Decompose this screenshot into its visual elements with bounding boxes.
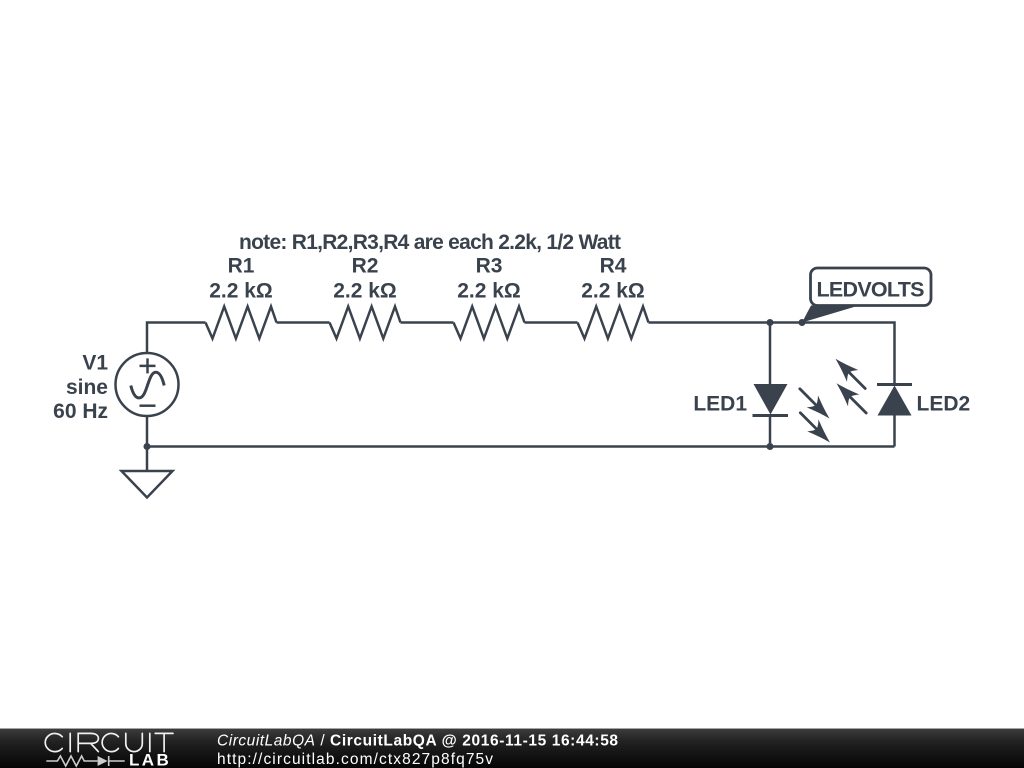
wire R2 to R3 [401,321,454,324]
LED2 lower branch wire [893,416,896,447]
ground stem wire [146,447,149,472]
junction node dot V1 bottom [144,443,151,450]
V1 sine wave [131,372,164,398]
svg-text:2.2 kΩ: 2.2 kΩ [581,280,645,303]
LEDVOLTS flag box [811,268,932,306]
footer text block [0,723,700,768]
svg-text:R3: R3 [476,255,503,278]
LED2 emission arrow 2 [831,378,872,419]
svg-text:2.2 kΩ: 2.2 kΩ [457,280,521,303]
junction node dot LEDVOLTS [799,319,806,326]
svg-text:2.2 kΩ: 2.2 kΩ [209,280,273,303]
resistor R2 [330,307,401,339]
svg-text:LED1: LED1 [693,392,747,415]
V1 plus sign [140,358,156,373]
footer bar [0,728,1024,768]
LED1 lower branch wire [769,416,772,447]
bottom wire [147,445,895,448]
logo wordmark CIRCUIT [45,733,173,751]
LED2 emission arrow 1 [830,353,871,394]
svg-text:sine: sine [66,376,108,399]
svg-text:LEDVOLTS: LEDVOLTS [817,278,925,302]
LEDVOLTS flag pointer [802,306,859,323]
LED1 emission arrow 1 [794,383,835,424]
svg-text:R4: R4 [600,255,627,278]
svg-text:2.2 kΩ: 2.2 kΩ [333,280,397,303]
svg-text:R2: R2 [352,255,379,278]
junction node dot top LED1 [767,319,774,326]
svg-text:LED2: LED2 [917,392,971,415]
svg-text:CircuitLabQA / CircuitLabQA @: CircuitLabQA / CircuitLabQA @ 2016-11-15… [217,733,618,750]
ground symbol [122,471,173,498]
resistor R3 [454,307,525,339]
wire R3 to R4 [525,321,578,324]
wire top-left from V1 up and right to R1 [147,323,206,353]
resistor R1 [206,307,277,339]
svg-text:60 Hz: 60 Hz [53,400,108,423]
LED1 triangle [754,384,788,415]
CircuitLab logo [0,723,200,768]
resistor R4 [578,307,649,339]
junction node dot bottom LED1 [767,443,774,450]
LED2 top bar [877,383,912,386]
wire V1 bottom to node [146,416,149,447]
LED1 cathode bar [753,414,789,417]
wire R4 to LED branches and right corner down to LED2 [649,323,895,385]
LED1 emission arrow 2 [795,407,836,448]
LED1 upper branch wire [769,323,772,385]
wire R1 to R2 [277,321,330,324]
V1 minus sign [140,404,156,407]
logo wire with resistor glyph [46,756,124,766]
logo diode glyph [98,756,108,766]
voltage source V1 circle [116,353,179,416]
svg-text:note: R1,R2,R3,R4 are each 2.2: note: R1,R2,R3,R4 are each 2.2k, 1/2 Wat… [239,231,621,254]
svg-text:R1: R1 [228,255,255,278]
LED2 triangle [878,386,912,416]
svg-text:http://circuitlab.com/ctx827p8: http://circuitlab.com/ctx827p8fq75v [217,751,493,768]
svg-text:V1: V1 [82,351,108,374]
